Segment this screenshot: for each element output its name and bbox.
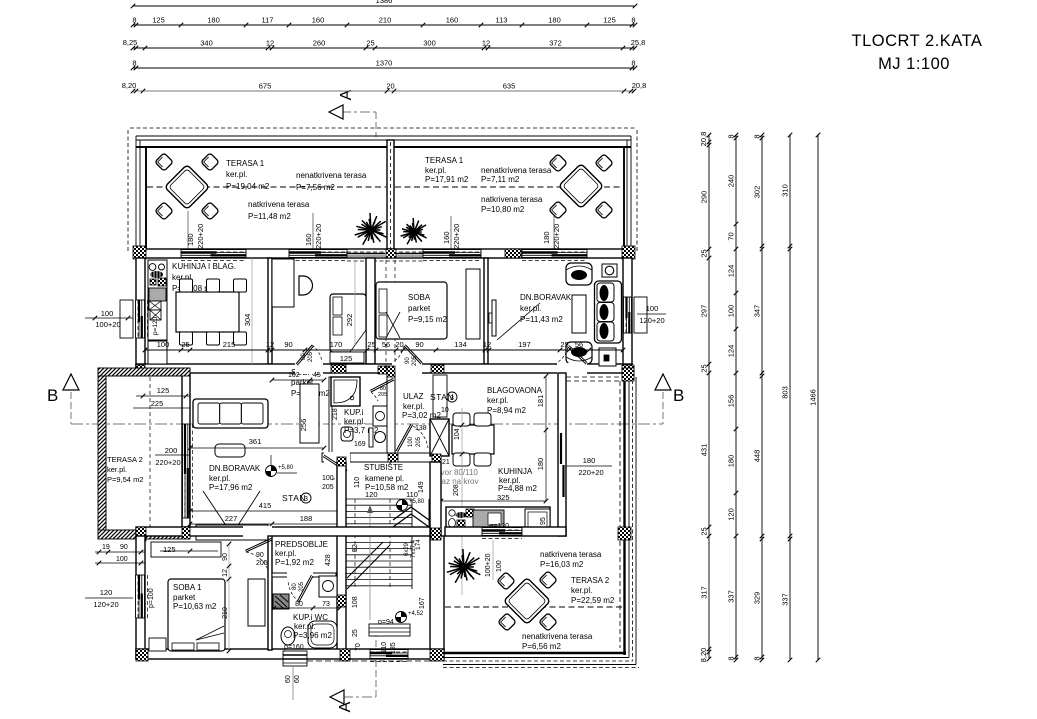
svg-text:P=9,15 m2: P=9,15 m2 [408, 315, 447, 324]
column top-left [133, 246, 146, 259]
terasa2 right railing right [623, 377, 625, 655]
terasa2 right railing bottom [443, 652, 626, 654]
svg-text:108: 108 [352, 596, 359, 608]
wc shower [308, 621, 337, 648]
svg-text:220+20: 220+20 [155, 458, 180, 467]
svg-text:p=120: p=120 [152, 316, 159, 335]
covered boundary dashed right [395, 186, 623, 188]
dimension row 2 [133, 24, 635, 26]
dim 100/120+20 right [637, 313, 666, 315]
dimension column 1 [708, 135, 710, 659]
tv cabinet corner [602, 264, 617, 277]
terrace window dim 160/220+20 left [312, 213, 314, 249]
svg-text:675: 675 [259, 82, 272, 91]
svg-text:12: 12 [483, 340, 491, 349]
svg-text:635: 635 [503, 82, 516, 91]
svg-text:ker.pl.: ker.pl. [571, 586, 592, 595]
section marker B right [655, 374, 671, 390]
svg-text:181: 181 [536, 395, 545, 408]
svg-text:nenatkrivena terasa: nenatkrivena terasa [296, 171, 367, 180]
svg-text:302: 302 [753, 186, 762, 199]
svg-text:TLOCRT 2.KATA: TLOCRT 2.KATA [852, 32, 983, 50]
terasa2 left dashed vertical [149, 377, 151, 530]
tall cupboard right of ulaz [433, 375, 447, 417]
columns middle wall [136, 365, 145, 373]
svg-text:25: 25 [700, 527, 709, 535]
wall3 door opening soba1 [243, 526, 272, 537]
svg-text:95: 95 [540, 517, 547, 525]
dnboravak door [557, 363, 587, 374]
dining chairs top [180, 279, 193, 292]
svg-text:125: 125 [163, 545, 176, 554]
svg-text:MJ 1:100: MJ 1:100 [878, 55, 950, 73]
terasa2 boundary dashed vertical [619, 381, 621, 648]
cabinet bottom right [599, 348, 616, 366]
svg-text:BLAGOVAONA: BLAGOVAONA [487, 386, 543, 395]
column top-right [622, 246, 635, 259]
middle horizontal wall [136, 364, 632, 373]
svg-text:8: 8 [631, 59, 635, 68]
svg-text:205: 205 [256, 560, 268, 567]
svg-text:169: 169 [354, 441, 366, 448]
terrace parapet top [130, 127, 637, 129]
svg-text:P=10,63 m2: P=10,63 m2 [173, 602, 217, 611]
kitchen fridge lower [148, 341, 167, 364]
svg-text:205: 205 [378, 392, 387, 398]
dashed line bottom wall to terrace [307, 660, 443, 662]
svg-text:P=7,11 m2: P=7,11 m2 [481, 175, 520, 184]
rotated dims 100+20 100 kitchen window [492, 540, 494, 580]
kitchen sink circles [149, 264, 156, 271]
left wall middle band [182, 373, 190, 527]
svg-text:100: 100 [496, 560, 503, 572]
section line B-B horizontal [71, 423, 663, 425]
svg-text:125: 125 [152, 16, 165, 25]
dimension column 4 [789, 135, 791, 660]
svg-text:70: 70 [355, 643, 362, 651]
svg-text:8: 8 [753, 134, 762, 138]
svg-text:p=160: p=160 [284, 644, 304, 651]
svg-text:180: 180 [727, 455, 736, 468]
left outer wall lower [136, 536, 145, 659]
plant left of divider [355, 213, 387, 245]
blagovaona chairs [453, 413, 470, 426]
roof dashes over soba [385, 260, 387, 372]
svg-text:P=3,7 m2: P=3,7 m2 [344, 426, 379, 435]
window W2 [289, 250, 347, 258]
svg-text:KUP.i WC: KUP.i WC [293, 613, 328, 622]
svg-text:240: 240 [727, 175, 736, 188]
bath washer [373, 406, 387, 426]
wall bath/ulaz [387, 373, 395, 453]
bath lower door [324, 452, 350, 463]
svg-text:120+20: 120+20 [639, 316, 664, 325]
svg-text:25,8: 25,8 [631, 38, 646, 47]
column terrace mid-right [618, 527, 631, 540]
svg-text:TERASA 2: TERASA 2 [571, 576, 610, 585]
svg-text:P=3,96 m2: P=3,96 m2 [293, 631, 332, 640]
dim 304 rotated [251, 258, 253, 364]
kitchen gray sink top [149, 288, 166, 301]
terrace 1 right table [559, 164, 604, 209]
svg-text:+5,80: +5,80 [278, 465, 294, 471]
svg-text:ker.pl.: ker.pl. [294, 622, 315, 631]
svg-text:p=100: p=100 [148, 588, 155, 608]
svg-text:8: 8 [631, 16, 635, 25]
svg-text:+5,80: +5,80 [409, 499, 425, 505]
svg-text:6x29: 6x29 [404, 542, 410, 556]
dim 100/100+20 left [85, 317, 133, 319]
svg-text:188: 188 [300, 514, 313, 523]
armchair top [566, 263, 592, 285]
pointer line dnboravak [497, 303, 540, 340]
wc toilet [281, 627, 295, 645]
sofa right wall [595, 281, 622, 343]
svg-text:317: 317 [700, 586, 709, 599]
small dims 19 90 100 [95, 551, 145, 553]
svg-text:113: 113 [496, 16, 508, 25]
svg-text:1370: 1370 [376, 59, 393, 68]
dim 181/180 vertical kuhinja [545, 376, 547, 501]
kitchen counter bottom [446, 507, 550, 531]
svg-text:210: 210 [222, 607, 229, 619]
svg-text:1386: 1386 [376, 0, 393, 5]
svg-text:205: 205 [299, 581, 305, 592]
svg-text:80: 80 [301, 353, 307, 360]
svg-text:340: 340 [200, 39, 213, 48]
boxed label 125 soba2 bed [330, 352, 364, 363]
svg-text:100: 100 [157, 340, 170, 349]
svg-text:205: 205 [322, 484, 334, 491]
dimension column 5 (1466) [817, 135, 819, 660]
svg-text:90: 90 [120, 544, 128, 551]
shower tray [331, 377, 360, 406]
svg-text:100: 100 [101, 309, 114, 318]
bathroom bottom wall [322, 453, 441, 462]
svg-text:431: 431 [700, 444, 709, 457]
svg-text:nenatkrivena terasa: nenatkrivena terasa [481, 166, 552, 175]
dining chairs bottom [180, 332, 193, 345]
svg-text:25: 25 [181, 340, 189, 349]
svg-text:10: 10 [441, 407, 449, 414]
dim 292 rotated [354, 262, 356, 345]
svg-text:kamene pl.: kamene pl. [365, 474, 404, 483]
column bottom-left [136, 649, 148, 661]
svg-text:nenatkrivena terasa: nenatkrivena terasa [522, 632, 593, 641]
svg-text:DN.BORAVAK: DN.BORAVAK [520, 293, 572, 302]
dining table [176, 292, 239, 332]
wc washer [319, 576, 337, 597]
column top-mid [505, 249, 521, 258]
svg-text:90: 90 [256, 552, 264, 559]
svg-text:300: 300 [423, 39, 436, 48]
bottom terrace chairs [497, 572, 515, 590]
soba2 wardrobe [272, 259, 294, 307]
svg-text:124: 124 [727, 345, 736, 358]
coffee table tall [572, 295, 586, 333]
svg-text:100: 100 [116, 556, 128, 563]
wall left of stairs [337, 462, 346, 650]
dimension row 5 (terrace) [133, 90, 634, 92]
window W3 [423, 250, 481, 258]
svg-text:170: 170 [330, 340, 343, 349]
svg-text:8: 8 [727, 656, 736, 660]
level mark stairs top [397, 500, 408, 511]
kitchen counter strip [148, 260, 167, 340]
svg-text:361: 361 [249, 437, 262, 446]
wall right of stairs [430, 462, 441, 536]
coffee table lower [215, 444, 245, 457]
svg-text:90: 90 [284, 340, 292, 349]
svg-text:337: 337 [727, 590, 736, 603]
stair upper chevrons [393, 514, 429, 527]
svg-text:160: 160 [304, 233, 313, 246]
bath sink [341, 427, 353, 441]
svg-text:8: 8 [132, 59, 136, 68]
dimension row 1 (1386) [133, 5, 635, 7]
glass door right wall [559, 431, 565, 498]
svg-text:260: 260 [313, 39, 326, 48]
svg-text:3: 3 [450, 395, 454, 402]
svg-text:KUHINJA I BLAG.: KUHINJA I BLAG. [172, 262, 236, 271]
dim 361 [190, 447, 324, 449]
terrace 1 right chairs [549, 154, 567, 172]
TERASA 2 left hatched walls [98, 368, 106, 539]
svg-text:25: 25 [700, 364, 709, 372]
window right 100 [624, 297, 632, 333]
svg-text:134: 134 [454, 340, 467, 349]
svg-text:P=8,94 m2: P=8,94 m2 [487, 406, 526, 415]
svg-text:120: 120 [727, 508, 736, 521]
dimension column 2 [735, 135, 737, 660]
wall3 horizontal [136, 527, 430, 536]
svg-text:90: 90 [415, 340, 423, 349]
stair break diagonals [347, 545, 390, 589]
svg-text:100+20: 100+20 [485, 553, 492, 577]
stair flight divider dashed [354, 499, 356, 589]
svg-text:1466: 1466 [809, 389, 818, 406]
blagovaona table [452, 425, 494, 454]
main top wall [136, 249, 634, 258]
svg-text:19: 19 [102, 544, 110, 551]
kitchen coil hob [150, 271, 163, 278]
svg-text:120+20: 120+20 [93, 600, 118, 609]
svg-text:210: 210 [379, 16, 392, 25]
svg-text:138: 138 [415, 425, 427, 432]
level mark stairs bottom [396, 612, 407, 623]
svg-text:20,8: 20,8 [632, 81, 647, 90]
right outer wall upper [623, 258, 632, 373]
svg-text:ULAZ: ULAZ [403, 392, 424, 401]
svg-text:180: 180 [542, 231, 551, 244]
soba1 door from predsoblje [246, 540, 272, 552]
svg-text:218: 218 [332, 408, 339, 420]
svg-text:110: 110 [381, 642, 388, 653]
dim 415 [190, 510, 340, 512]
svg-text:B: B [673, 386, 684, 405]
svg-text:292: 292 [345, 314, 354, 327]
wc sink dark [273, 594, 289, 609]
column wall3/terrace-wall junction [182, 527, 190, 539]
svg-text:ker.pl.: ker.pl. [520, 304, 541, 313]
svg-text:P=9,54 m2: P=9,54 m2 [107, 475, 143, 484]
svg-text:100: 100 [727, 305, 736, 318]
svg-text:25: 25 [366, 39, 374, 48]
soba door [392, 363, 422, 374]
svg-text:8,20: 8,20 [699, 648, 708, 663]
svg-text:56: 56 [575, 340, 583, 349]
svg-text:P=22,59 m2: P=22,59 m2 [571, 596, 615, 605]
svg-text:110: 110 [406, 490, 418, 499]
soba wardrobe [466, 269, 480, 339]
svg-text:12: 12 [266, 39, 274, 48]
svg-text:PREDSOBLJE: PREDSOBLJE [275, 540, 328, 549]
svg-text:45: 45 [313, 372, 321, 379]
interior wall soba2/soba [366, 258, 375, 364]
svg-text:+4,52: +4,52 [408, 611, 424, 617]
dims 80 73 [274, 607, 340, 609]
svg-text:160: 160 [312, 16, 325, 25]
window left 100 [136, 300, 145, 338]
dimension row 4 (1370) [133, 67, 635, 69]
sideboard on wall3 [196, 525, 268, 540]
svg-text:8: 8 [753, 656, 762, 660]
svg-text:200: 200 [165, 446, 178, 455]
svg-text:8,20: 8,20 [122, 81, 137, 90]
svg-text:ker.pl.: ker.pl. [209, 474, 230, 483]
dimension column 3 [761, 135, 763, 660]
terrace door left wall [183, 424, 190, 518]
svg-text:227: 227 [225, 514, 238, 523]
svg-text:104: 104 [454, 428, 461, 440]
svg-text:100: 100 [408, 436, 414, 447]
svg-text:156: 156 [727, 395, 736, 408]
svg-text:52: 52 [352, 544, 359, 552]
svg-text:TERASA 2: TERASA 2 [107, 455, 143, 464]
terrace door glazing 347-423 [347, 251, 423, 253]
KUP bathroom left wall [329, 377, 332, 462]
left outer wall upper [136, 258, 145, 373]
svg-text:natkrivena terasa: natkrivena terasa [248, 200, 310, 209]
svg-text:parket: parket [408, 304, 431, 313]
svg-text:80: 80 [292, 583, 298, 590]
svg-text:P=17,91 m2: P=17,91 m2 [425, 175, 469, 184]
pilaster outside left window [120, 300, 133, 338]
svg-text:180: 180 [186, 233, 195, 246]
terrace 1 left chairs [155, 153, 173, 171]
svg-text:180: 180 [548, 16, 561, 25]
svg-text:STUBIŠTE: STUBIŠTE [364, 463, 403, 472]
svg-text:220+20: 220+20 [196, 224, 205, 249]
dim line x229 [228, 544, 230, 651]
svg-text:125: 125 [603, 16, 616, 25]
svg-text:215: 215 [223, 340, 236, 349]
terrace 1 left table [165, 165, 210, 210]
svg-text:372: 372 [549, 39, 562, 48]
plant right of divider [401, 218, 427, 244]
dim 120/120+20 soba1 [85, 597, 133, 599]
svg-text:329: 329 [753, 592, 762, 605]
svg-text:100+20: 100+20 [95, 320, 120, 329]
svg-text:310: 310 [781, 184, 790, 197]
armchair bottom [566, 342, 592, 364]
column terrace top-right [622, 368, 634, 381]
svg-text:803: 803 [781, 386, 790, 399]
svg-text:20: 20 [386, 82, 394, 91]
svg-text:21: 21 [442, 459, 450, 466]
section line A-A vertical top [341, 111, 376, 113]
svg-text:SOBA: SOBA [408, 293, 431, 302]
svg-text:KUP.i: KUP.i [344, 408, 364, 417]
entry steps bottom [283, 651, 307, 666]
svg-text:220+20: 220+20 [578, 468, 603, 477]
svg-text:P=16,03 m2: P=16,03 m2 [540, 560, 584, 569]
svg-text:337: 337 [781, 593, 790, 606]
svg-text:8: 8 [132, 16, 136, 25]
terrace divider wall [387, 140, 394, 249]
terasa2 dashes top right [566, 376, 623, 378]
svg-text:8: 8 [727, 134, 736, 138]
svg-text:56: 56 [382, 340, 390, 349]
svg-text:25: 25 [367, 340, 375, 349]
svg-text:ker.pl.: ker.pl. [226, 170, 247, 179]
svg-text:220+20: 220+20 [452, 224, 461, 249]
svg-text:73: 73 [322, 601, 330, 608]
svg-text:TERASA 1: TERASA 1 [226, 159, 265, 168]
svg-text:P=4,88 m2: P=4,88 m2 [498, 484, 537, 493]
stair bottom landing [369, 624, 410, 636]
dim 180/220+20 right kuhinja [566, 465, 612, 467]
soba1 bench left [149, 638, 166, 651]
roof hatch X [430, 419, 449, 456]
svg-text:220+20: 220+20 [314, 224, 323, 249]
dim 325 horizontal [441, 500, 546, 502]
svg-text:180: 180 [207, 16, 220, 25]
svg-text:304: 304 [243, 314, 252, 327]
dim 200/220+20 terrace door [155, 454, 190, 456]
svg-text:225: 225 [151, 399, 164, 408]
svg-text:12: 12 [482, 39, 490, 48]
window kitchen bottom [482, 528, 522, 536]
svg-text:P=11,43 m2: P=11,43 m2 [520, 315, 563, 324]
section marker A bottom [330, 690, 344, 704]
wall right of blagovaona [558, 373, 566, 536]
svg-text:102: 102 [288, 372, 300, 379]
stair treads [346, 498, 412, 500]
svg-text:P=19,04 m2: P=19,04 m2 [226, 182, 270, 191]
svg-text:120: 120 [100, 588, 113, 597]
svg-text:149: 149 [418, 481, 425, 493]
svg-text:60: 60 [285, 675, 292, 683]
shelf cabinet 256 [300, 384, 319, 443]
section marker A top [329, 105, 343, 119]
svg-text:ker.pl.: ker.pl. [487, 396, 508, 405]
svg-text:ker.pl.: ker.pl. [403, 402, 424, 411]
svg-text:80: 80 [295, 601, 303, 608]
svg-text:ker.pl.: ker.pl. [344, 417, 365, 426]
svg-text:A: A [337, 701, 354, 712]
svg-text:117: 117 [262, 16, 274, 25]
svg-text:P=1,92 m2: P=1,92 m2 [275, 558, 314, 567]
terrace parapet right [636, 130, 638, 252]
svg-text:124: 124 [727, 265, 736, 278]
svg-text:B: B [47, 386, 58, 405]
svg-text:110: 110 [354, 477, 361, 488]
soba bed [376, 282, 447, 339]
svg-text:125: 125 [157, 386, 170, 395]
interior wall soba/dnboravak [484, 258, 488, 364]
svg-text:180: 180 [536, 458, 545, 471]
